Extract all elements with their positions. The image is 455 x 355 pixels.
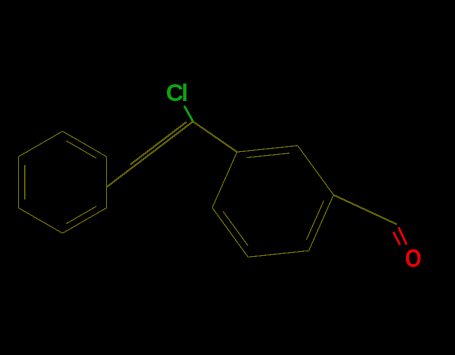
bond C(Cl) to right ring (193, 122, 237, 153)
right benzene ring (212, 146, 333, 257)
vinyl C=C double bond Ph-C(Cl) (107, 122, 193, 188)
chain ring-CH2-CHO (334, 195, 397, 224)
label Cl (166, 80, 188, 107)
svg-text:l: l (182, 80, 189, 107)
svg-text:O: O (405, 244, 422, 272)
label O (405, 244, 422, 272)
left benzene ring (18, 131, 106, 233)
C=O double bond (red) (393, 227, 406, 245)
C-Cl bond (green) (184, 106, 193, 122)
